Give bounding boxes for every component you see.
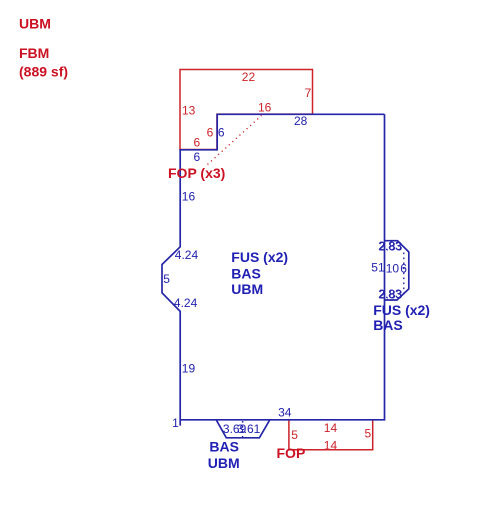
svg-text:2.83: 2.83 [379,288,403,302]
svg-text:FOP (x3): FOP (x3) [168,165,225,181]
svg-text:3.61: 3.61 [237,422,261,436]
svg-text:FOP: FOP [277,445,306,461]
svg-text:16: 16 [258,100,272,114]
svg-text:4.24: 4.24 [175,248,199,262]
svg-text:UBM: UBM [231,281,263,297]
svg-text:22: 22 [242,70,256,84]
svg-text:28: 28 [294,114,308,128]
svg-text:51: 51 [371,261,385,275]
svg-text:6: 6 [218,126,225,140]
svg-text:34: 34 [278,405,292,419]
svg-text:(889 sf): (889 sf) [19,64,68,80]
svg-text:BAS: BAS [209,438,239,454]
red dotted leader to FOP (x3) [208,116,262,165]
blue dotted leader inside trapezoid [242,421,244,437]
FBM red outline (upper addition) [180,70,313,150]
svg-text:FBM: FBM [19,45,49,61]
svg-text:19: 19 [182,361,196,375]
svg-text:2.83: 2.83 [379,239,403,253]
svg-text:FUS (x2): FUS (x2) [373,302,430,318]
svg-text:FUS (x2): FUS (x2) [231,249,288,265]
main blue outline: top edge, step, left wall with bumpout [162,114,385,425]
svg-text:7: 7 [305,86,312,100]
bottom trapezoid bumpout (BAS/UBM stair) [216,420,270,438]
svg-text:BAS: BAS [231,266,261,282]
svg-text:BAS: BAS [373,317,403,333]
svg-text:14: 14 [324,421,338,435]
svg-text:13: 13 [182,104,196,118]
FOP red box (bottom porch) [289,420,373,449]
svg-text:14: 14 [324,438,338,452]
wire: bottom edge + right wall [180,114,384,420]
svg-text:6: 6 [207,126,214,140]
svg-text:UBM: UBM [208,455,240,471]
blue dotted leader inside right bumpout [403,253,405,296]
svg-text:5: 5 [365,426,372,440]
svg-text:6: 6 [194,150,201,164]
svg-text:5: 5 [163,272,170,286]
svg-text:10: 10 [386,262,400,276]
wire: top edge + step + left wall [162,114,385,425]
right FUS bumpout [385,241,409,300]
svg-text:16: 16 [182,190,196,204]
svg-text:5: 5 [291,428,298,442]
svg-text:6: 6 [194,136,201,150]
svg-text:1: 1 [172,416,179,430]
svg-text:6: 6 [400,262,407,276]
svg-text:4.24: 4.24 [174,296,198,310]
svg-text:UBM: UBM [19,16,51,32]
